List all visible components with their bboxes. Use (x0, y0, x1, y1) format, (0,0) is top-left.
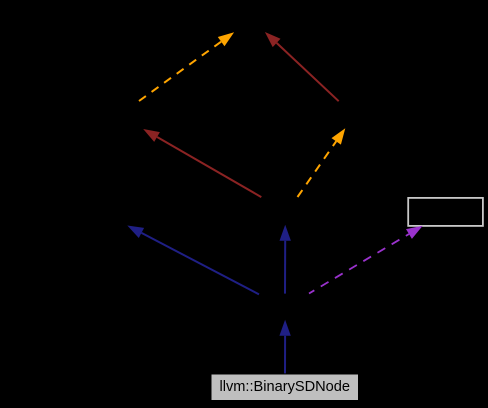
node label: llvm::BinarySDNode (211, 374, 359, 401)
private inheritance arrow C: ilist_node&lt;NodeTy&gt; to ilist_half_node&lt;NodeTy&gt; (265, 32, 339, 101)
public inheritance arrow H: BinarySDNode to SDNode (279, 320, 290, 374)
node box: llvm::BinarySDNode (current node, grey filled) (211, 374, 359, 401)
template arrow D: ilist_node&lt;SDNode&gt; to ilist_node&lt;NodeTy&gt; (298, 128, 346, 197)
template arrow A: ilist_half_node&lt;SDNode&gt; to ilist_half_node&lt;NodeTy&gt; (139, 32, 234, 101)
public inheritance arrow F: SDNode to ilist_node&lt;SDNode&gt; (280, 225, 291, 294)
usage arrow G: SDNode to SDUse box (309, 226, 423, 294)
public inheritance arrow E: SDNode to FoldingSetImpl::Node (127, 226, 259, 295)
node box: SDUse (grey bordered) (408, 198, 483, 226)
private inheritance arrow B: ilist_node&lt;SDNode&gt; to ilist_half_node&lt;SDNode&gt; (143, 129, 261, 197)
